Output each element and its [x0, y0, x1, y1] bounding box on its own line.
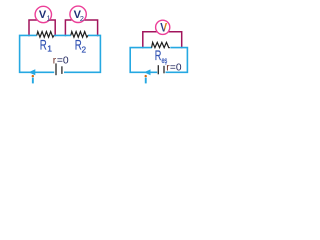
svg-text:1: 1 [47, 16, 51, 23]
svg-text:R: R [155, 48, 162, 63]
svg-text:=0: =0 [170, 63, 182, 74]
svg-text:R: R [40, 38, 47, 53]
svg-text:2: 2 [80, 14, 84, 23]
svg-text:V: V [160, 22, 167, 34]
svg-text:=0: =0 [57, 55, 69, 66]
svg-text:1: 1 [47, 44, 52, 54]
svg-text:2: 2 [82, 44, 87, 54]
